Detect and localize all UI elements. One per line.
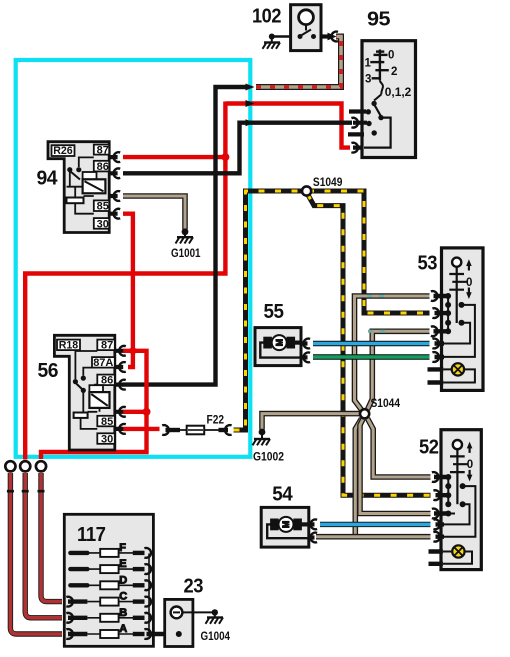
switch 53 position label 0 (466, 277, 472, 289)
switch 52 position label 0 (467, 459, 473, 471)
svg-text:0: 0 (388, 50, 394, 62)
svg-text:3: 3 (365, 73, 371, 85)
wiper switch 53 contacts and internal wiring (443, 293, 475, 357)
junction node: red elbow dot at 94 pin30 (129, 347, 136, 354)
wire: dark red connector circle2 down to fuse row B (25, 473, 62, 618)
label S1049 (313, 177, 343, 189)
svg-text:85: 85 (101, 416, 113, 428)
svg-text:G1002: G1002 (253, 452, 284, 464)
switch 95 pin stubs (348, 112, 367, 153)
fuse box 117 supply bus (148, 554, 150, 635)
lamp unit 23 internals (171, 607, 183, 638)
wiper switch unit 52 body (441, 430, 481, 570)
svg-text:30: 30 (101, 433, 113, 445)
wire: tan 53 pin1 to S1044 (355, 296, 430, 411)
junction node: red dot at 56 pin85 tap (143, 408, 151, 416)
svg-text:94: 94 (37, 167, 59, 189)
fuse row D (70, 574, 151, 590)
wire: blue 55 pin1 to 53 pin4 (313, 341, 430, 346)
svg-text:53: 53 (418, 253, 438, 275)
svg-text:M: M (281, 521, 291, 528)
relay 94 body (48, 142, 109, 233)
splice node S1044 (360, 409, 369, 418)
ground G1004 symbol (206, 609, 224, 624)
wire: red 56 pin85 to feed vertical junction (123, 410, 147, 414)
wire: black/yellow striped S1049 branch to 52 pin2 (308, 194, 431, 495)
relay 94 internals: coil and switch (67, 157, 106, 213)
fuse row A (66, 623, 151, 639)
fuse row C (66, 591, 151, 607)
label 54 (272, 483, 293, 505)
wire: black 56 pin86 up and right to boundary connector (123, 87, 249, 385)
wire: tan S1044 down to 52 pin1 (368, 419, 431, 478)
svg-text:1: 1 (365, 57, 372, 69)
wiper switch 52 contacts and internal wiring (443, 474, 476, 537)
switch 95 position ladder (370, 50, 389, 101)
fuse row F (70, 542, 151, 558)
fuse row B (66, 607, 151, 623)
pump motor 54 connector arcs (309, 520, 317, 543)
label 117 (77, 524, 106, 546)
svg-text:E: E (119, 558, 126, 570)
svg-text:S1049: S1049 (313, 177, 343, 189)
wire: red vertical bus to bottom-left connector circle 2 (25, 102, 225, 460)
wire: tan 53 pin3 to S1044 (368, 331, 430, 409)
svg-text:55: 55 (264, 301, 284, 323)
pump motor 55 connector arcs (301, 339, 310, 363)
label S1044 (371, 398, 401, 410)
label 55 (264, 301, 284, 323)
junction node: red dot at 94 pin87 feed (221, 153, 229, 161)
relay 94 pin label 30 (94, 218, 109, 230)
label G1001 (171, 248, 201, 260)
lamp unit 23 body (165, 599, 193, 646)
svg-text:B: B (119, 607, 127, 619)
pump motor 54 body (261, 507, 309, 547)
ground G1001 symbol (176, 228, 194, 243)
wire: tan S1044 down to 52 pin3 (360, 419, 431, 514)
switch 102 body (291, 5, 321, 51)
connector arrow: striped wire at boundary y87 (246, 84, 255, 91)
label 94 (37, 167, 59, 189)
wire: tan/red striped from boundary connector to switch 102 (256, 37, 341, 88)
wire: black fuse A output to lamp unit 23 (147, 632, 179, 637)
svg-text:52: 52 (419, 437, 439, 459)
svg-text:2: 2 (391, 66, 397, 78)
label 95 (367, 9, 390, 31)
connector arrow: black wire crossing boundary (246, 119, 255, 126)
svg-text:30: 30 (97, 218, 109, 230)
wire: red 94 pin30 down to 56 pin87 and 87A (123, 214, 133, 367)
svg-text:F22: F22 (207, 415, 225, 427)
svg-text:G1004: G1004 (201, 631, 231, 643)
label G1004 (201, 631, 231, 643)
pump motor 55 body (255, 328, 301, 366)
switch 95 contacts (364, 101, 391, 148)
relay 56 pin stubs and connector arcs (115, 346, 126, 434)
label 23 (184, 576, 204, 598)
wiper switch 52 pilot lamp (443, 545, 472, 564)
connector circle 2 (bottom left) (20, 461, 30, 471)
fuse F22 in line (162, 425, 231, 435)
fuse box 117 body (64, 514, 153, 646)
svg-text:87: 87 (101, 340, 113, 352)
relay 56 pin label 87 (97, 340, 115, 352)
svg-text:56: 56 (38, 360, 59, 382)
wire: tan S1044 down to 54/52 pin5 row (355, 419, 361, 536)
wire: tan 54 pin2 to 52 pin5 (316, 534, 431, 540)
svg-text:A: A (119, 623, 127, 635)
wiper switch unit 53 body (442, 248, 484, 391)
svg-text:0: 0 (466, 277, 472, 289)
wire: black 102 to ground dot (272, 35, 291, 38)
wire: 23 to ground G1004 (182, 611, 214, 613)
relay 56 pin label 86 (97, 375, 115, 387)
relay 56 internals: coil and switch (73, 351, 110, 429)
pump motor 54 internals (267, 517, 309, 538)
svg-text:102: 102 (252, 5, 281, 27)
svg-text:95: 95 (367, 9, 390, 31)
connector circle 1 (bottom left) (5, 461, 15, 471)
relay 94 label R26 (52, 145, 75, 157)
svg-text:R26: R26 (53, 145, 72, 157)
connector circle 3 (bottom left) (36, 461, 46, 471)
connector arrow: red wire crossing boundary (246, 100, 255, 107)
svg-text:M: M (274, 339, 284, 346)
switch 102 output stub, arrow and arc (321, 32, 338, 42)
fuse row E (70, 558, 151, 574)
svg-text:117: 117 (77, 524, 106, 546)
relay 94 pin label 87 (94, 144, 109, 156)
wiper switch 53 pin stubs and arcs (428, 291, 449, 382)
svg-text:85: 85 (97, 201, 109, 213)
svg-text:F: F (119, 542, 126, 554)
wire: green 55 pin2 to 53 pin5 (313, 354, 430, 359)
switch 95 body (362, 41, 416, 158)
ground symbol at 102 (263, 34, 281, 49)
tick marks on the three feed wires (7, 490, 45, 493)
wire: black 94 pin86 to 95 pin2 (123, 123, 352, 174)
switch 95 position labels (365, 50, 412, 99)
wiper switch 53 park symbol: circle, bars, arrows (449, 258, 471, 323)
relay 56 body (54, 335, 114, 450)
relay 56 pin label 85 (97, 416, 115, 428)
relay 56 label R18 (57, 340, 80, 352)
wire: tan 94 pin85 to ground G1001 (123, 196, 185, 230)
svg-text:23: 23 (184, 576, 204, 598)
svg-text:0,1,2: 0,1,2 (385, 87, 412, 99)
svg-text:C: C (119, 591, 127, 603)
harness boundary box (cyan) (16, 60, 251, 457)
svg-text:G1001: G1001 (171, 248, 201, 260)
wire: red 56 pin87 horizontal to feed vertical (41, 351, 147, 459)
relay 94 pin stubs and connector arcs (109, 152, 120, 218)
wire: tan S1044 to ground G1002 (262, 414, 360, 430)
wire: dark red connector circle1 down to fuse row A (10, 473, 62, 634)
relay 56 pin label 87A (92, 357, 115, 369)
relay 56 pin label 30 (97, 433, 115, 445)
pump motor 55 internals (260, 335, 301, 358)
label 56 (38, 360, 59, 382)
label 52 (419, 437, 439, 459)
wire: dark red connector circle3 down to fuse row C (41, 473, 62, 602)
svg-text:54: 54 (272, 483, 293, 505)
wire: red battery net 94 pin87 junction to 95 pin4 (123, 104, 350, 158)
wiper switch 52 park symbol: circle, bars, arrows (450, 440, 472, 504)
svg-text:D: D (119, 574, 127, 586)
relay 94 pin label 86 (94, 161, 109, 173)
relay 94 pin label 85 (94, 200, 109, 212)
label 102 (252, 5, 281, 27)
ground G1002 symbol (253, 429, 271, 446)
wiper switch 53 pilot lamp (443, 363, 475, 382)
switch 102 internals: sensor circle and contacts (298, 10, 317, 39)
label G1002 (253, 452, 284, 464)
svg-text:S1044: S1044 (371, 398, 401, 410)
svg-text:86: 86 (97, 161, 109, 173)
wire: black/yellow striped F22 to S1049 to 53 pin2 (234, 191, 430, 430)
svg-text:R18: R18 (59, 340, 78, 352)
label 53 (418, 253, 438, 275)
svg-text:87: 87 (97, 144, 109, 156)
label F22 (207, 415, 225, 427)
svg-text:0: 0 (467, 459, 473, 471)
wire: blue 54 pin1 to 52 pin4 (320, 522, 431, 527)
wire: red 56 pin30 to fuse F22 (123, 427, 160, 431)
splice node S1049 (302, 186, 311, 195)
svg-text:87A: 87A (93, 357, 113, 369)
wiper switch 52 pin stubs and arcs (429, 472, 449, 564)
